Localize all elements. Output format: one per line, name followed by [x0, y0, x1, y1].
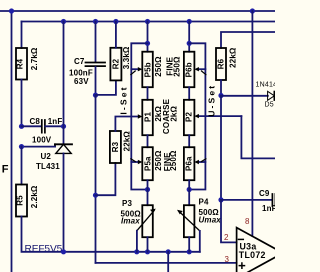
diode D5 1N4148 — [268, 91, 275, 100]
wire R3 bottom lead — [96, 163, 116, 195]
wire P5a to P3 — [147, 180, 149, 205]
svg-text:P3: P3 — [122, 199, 132, 208]
capacitor C9 — [221, 199, 272, 201]
svg-text:TL072: TL072 — [239, 250, 266, 260]
svg-text:2kΩ: 2kΩ — [170, 105, 179, 121]
node rail2 P6b column — [187, 19, 192, 24]
svg-text:Imax: Imax — [121, 217, 140, 226]
node rail2 R2 column — [113, 19, 118, 24]
svg-text:250Ω: 250Ω — [169, 150, 178, 171]
node TL431 ref junction — [19, 144, 24, 149]
resistor R4 — [16, 48, 27, 80]
wire P5 wiper loop — [131, 43, 147, 189]
svg-text:8: 8 — [245, 217, 250, 226]
svg-text:100nF: 100nF — [69, 68, 93, 77]
potentiometer P5a — [142, 147, 153, 180]
node U-Set junction — [218, 93, 223, 98]
wire P5b wiper branch — [131, 68, 139, 70]
svg-text:U2: U2 — [41, 152, 52, 161]
wire P5b column stub — [147, 22, 149, 52]
wire R5 top lead — [21, 147, 23, 185]
wire sense stub to bottom edge — [167, 252, 169, 272]
svg-text:1nF: 1nF — [262, 204, 275, 213]
wire R6 bottom lead — [220, 80, 222, 96]
wire V+ rail to pin 8 — [251, 11, 253, 236]
svg-text:P2: P2 — [184, 112, 193, 122]
wire R4 top lead — [21, 22, 23, 49]
op-amp U3a TL072 — [237, 228, 283, 272]
wire top rail 2 — [22, 21, 276, 23]
node P6b top junction — [187, 41, 192, 46]
svg-text:D5: D5 — [265, 102, 274, 109]
node rail2 C7 column — [93, 19, 98, 24]
node I-Set top junction — [93, 93, 98, 98]
wire P6a to P4 — [188, 180, 190, 205]
resistor R3 — [110, 131, 121, 163]
svg-text:Umax: Umax — [199, 216, 222, 225]
svg-text:22kΩ: 22kΩ — [123, 131, 132, 152]
potentiometer P6a — [184, 147, 195, 180]
node P5a bottom junction — [145, 187, 150, 192]
svg-text:63V: 63V — [74, 77, 89, 86]
svg-text:P6a: P6a — [184, 156, 193, 171]
svg-text:1nF: 1nF — [48, 117, 63, 126]
capacitor C8 1nF — [22, 125, 42, 127]
svg-text:250Ω: 250Ω — [154, 56, 163, 77]
svg-text:REF5V5: REF5V5 — [25, 244, 63, 255]
node REF5V5 sense junction — [166, 249, 171, 254]
wire R3 top lead to P1 wiper — [115, 117, 139, 132]
wire to op-amp pin 2 — [221, 200, 237, 243]
wire U-Set column — [220, 96, 222, 200]
svg-text:250Ω: 250Ω — [154, 150, 163, 171]
wire R5 bottom lead to REF5V5 rail — [22, 216, 200, 251]
trimmer P3 500 ohm Imax — [142, 205, 153, 237]
wire R2 bottom lead — [96, 80, 116, 95]
svg-text:R4: R4 — [15, 58, 24, 69]
wire P6 wiper loop — [189, 43, 205, 189]
svg-text:2: 2 — [224, 233, 229, 242]
svg-text:C8: C8 — [30, 117, 41, 126]
svg-text:2.7kΩ: 2.7kΩ — [30, 47, 39, 70]
svg-text:1N4148: 1N4148 — [256, 82, 276, 89]
potentiometer P6b — [184, 52, 195, 87]
node REF5V5 P3 bottom junction — [145, 249, 150, 254]
capacitor C7 100nF — [95, 22, 97, 62]
svg-text:P4: P4 — [199, 198, 209, 207]
node P6a bottom junction — [187, 187, 192, 192]
wire I-Set column — [95, 95, 97, 263]
wire P5a wiper branch — [131, 161, 139, 163]
svg-text:250Ω: 250Ω — [172, 56, 181, 77]
svg-text:R3: R3 — [111, 141, 120, 152]
node P5b top junction — [145, 41, 150, 46]
svg-text:3: 3 — [225, 255, 230, 264]
wire P3 bottom lead — [147, 237, 149, 252]
wire P6b wiper branch — [198, 68, 206, 70]
resistor R6 — [216, 48, 226, 80]
wire TL431 ref wire — [22, 146, 56, 148]
wire P6b-P2 — [188, 87, 190, 100]
wire left rail — [11, 11, 13, 272]
svg-text:P6b: P6b — [184, 62, 193, 77]
potentiometer P5b — [142, 52, 153, 87]
wire P4 bottom lead — [188, 237, 190, 252]
svg-text:P1: P1 — [143, 112, 152, 122]
potentiometer P1 — [142, 100, 153, 135]
wire D5 anode wire — [221, 95, 268, 97]
wire P2-P6a — [188, 135, 190, 147]
wire R2 top lead — [115, 22, 117, 48]
wire top rail 1 — [0, 10, 275, 12]
node R3 bottom junction — [93, 193, 98, 198]
svg-text:TL431: TL431 — [36, 162, 60, 171]
wire R6 feed from right — [221, 32, 275, 48]
node REF5V5 TL431 junction — [61, 249, 66, 254]
node REF5V5 P3 wiper junction — [134, 249, 139, 254]
svg-text:C9: C9 — [259, 189, 270, 198]
svg-text:3.3kΩ: 3.3kΩ — [122, 46, 131, 69]
svg-text:R5: R5 — [15, 195, 24, 206]
svg-text:F: F — [2, 163, 9, 175]
wire non-inverting input line B — [96, 262, 237, 264]
wire P2 wiper to right — [198, 115, 242, 117]
svg-text:100V: 100V — [32, 136, 52, 145]
wire P5b-P1 — [147, 87, 149, 100]
resistor R5 — [16, 185, 27, 217]
wire TL431 anode lead — [63, 153, 65, 251]
svg-text:R6: R6 — [217, 58, 226, 69]
node rail1-left junction — [9, 8, 14, 13]
svg-text:U-Set: U-Set — [207, 84, 217, 117]
node C8 left junction — [19, 124, 24, 129]
node rail1 V+ junction — [250, 8, 255, 13]
wire P6a wiper branch — [198, 161, 206, 163]
potentiometer P2 — [184, 100, 195, 135]
wire R4 bottom lead — [21, 80, 23, 127]
svg-text:22kΩ: 22kΩ — [229, 47, 238, 68]
svg-text:P5a: P5a — [143, 156, 152, 171]
svg-text:I-Set: I-Set — [118, 85, 128, 114]
resistor R2 — [110, 48, 121, 81]
node rail2 TL431 column — [61, 19, 66, 24]
node REF5V5 P4 bottom junction — [187, 249, 192, 254]
svg-text:P5b: P5b — [143, 62, 152, 77]
trimmer P4 500 ohm Umax — [184, 205, 195, 237]
op-amp U2 TL431 shunt reference — [55, 143, 72, 145]
wire P1-P5a — [147, 135, 149, 147]
wire TL431 cathode column — [63, 22, 65, 145]
svg-text:R2: R2 — [112, 58, 121, 69]
node C8 right junction — [61, 124, 66, 129]
wire P6b column stub — [188, 22, 190, 52]
svg-text:2.2kΩ: 2.2kΩ — [30, 185, 39, 208]
node rail2 P5b column — [145, 19, 150, 24]
node C9 junction — [218, 197, 223, 202]
svg-text:C7: C7 — [74, 57, 85, 66]
